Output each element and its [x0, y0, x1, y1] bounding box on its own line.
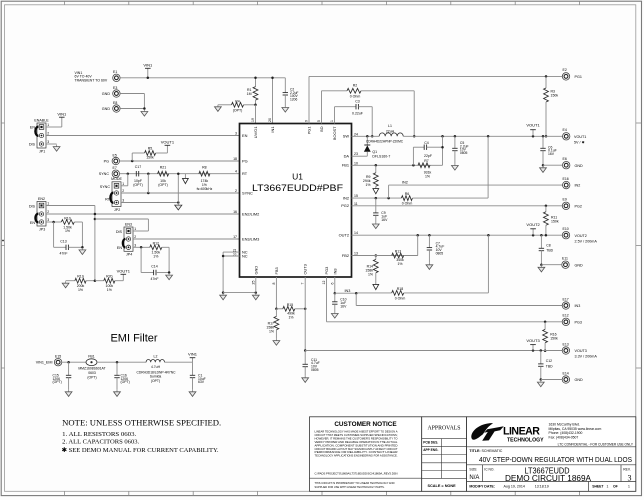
- wire pin20 stub: [272, 78, 274, 124]
- terminal E14 GND: [562, 376, 569, 383]
- svg-text:PG1: PG1: [307, 127, 312, 135]
- svg-text:25: 25: [251, 281, 255, 285]
- svg-text:0 Ohm: 0 Ohm: [350, 95, 361, 99]
- svg-text:GND: GND: [575, 164, 584, 168]
- svg-text:DIS: DIS: [29, 142, 36, 146]
- svg-text:DIS: DIS: [116, 230, 123, 234]
- wire IN2 E16 row: [389, 184, 563, 186]
- ferrite bead FB1 MMZ1608S601AT: [86, 359, 97, 366]
- svg-text:FB3: FB3: [274, 267, 279, 274]
- svg-text:Phone: (408)432-1900: Phone: (408)432-1900: [549, 431, 583, 435]
- svg-text:PG2: PG2: [341, 203, 349, 208]
- svg-text:FB1: FB1: [88, 354, 94, 358]
- svg-text:1%: 1%: [107, 288, 112, 292]
- title block customer notice: [310, 417, 422, 492]
- svg-text:40V STEP-DOWN REGULATOR WITH D: 40V STEP-DOWN REGULATOR WITH DUAL LDOS: [479, 455, 632, 464]
- resistor R18 0 Ohm: [356, 292, 392, 294]
- svg-text:CUSTOMER NOTICE: CUSTOMER NOTICE: [334, 421, 397, 428]
- ground: [428, 263, 430, 265]
- svg-text:MODE: MODE: [111, 177, 122, 181]
- wire PG2 pin11 row: [352, 205, 563, 207]
- wire IN2 pin15 row: [352, 197, 402, 199]
- svg-text:10: 10: [354, 161, 358, 165]
- svg-text:VIN1: VIN1: [57, 111, 67, 116]
- svg-text:VOUT2: VOUT2: [575, 234, 587, 238]
- svg-text:ENABLE: ENABLE: [34, 118, 49, 122]
- terminal E11 GND: [562, 261, 569, 268]
- svg-text:1: 1: [330, 120, 334, 122]
- capacitor C6 0.1uF 16V: [542, 136, 544, 148]
- wire PG3 pin12 down to E12: [326, 277, 328, 322]
- wire OUT2 pin14 row to E10: [352, 234, 563, 236]
- svg-text:Milpitas, CA 95035 www.linear: Milpitas, CA 95035 www.linear.com: [549, 427, 602, 431]
- terminal E5 PG: [112, 157, 119, 164]
- open arrow: [373, 284, 379, 289]
- svg-text:LT3667EUDD#PBF: LT3667EUDD#PBF: [252, 183, 343, 193]
- svg-text:19: 19: [251, 118, 255, 122]
- svg-text:JP4: JP4: [126, 253, 132, 257]
- capacitor C3 0.22uF: [335, 106, 357, 108]
- capacitor C8 TBD: [540, 235, 542, 248]
- svg-text:E12: E12: [563, 314, 569, 318]
- svg-text:C8: C8: [546, 243, 550, 247]
- svg-text:IN2: IN2: [343, 196, 349, 201]
- svg-text:5: 5: [317, 120, 321, 122]
- svg-text:N/A: N/A: [469, 475, 479, 481]
- resistor R6 0 Ohm: [401, 196, 412, 201]
- svg-text:EN2: EN2: [38, 197, 45, 201]
- svg-text:18: 18: [233, 157, 237, 161]
- ground: [540, 380, 542, 382]
- svg-text:0805: 0805: [311, 368, 319, 372]
- svg-text:0805: 0805: [460, 151, 468, 155]
- svg-text:13: 13: [354, 252, 358, 256]
- wire BOOST pin1 up: [334, 107, 336, 124]
- wire FB1 pin10 row: [352, 164, 443, 166]
- svg-text:2.5V / 200mA: 2.5V / 200mA: [575, 239, 598, 243]
- svg-text:(OPT): (OPT): [151, 379, 160, 383]
- svg-text:E9: E9: [563, 198, 567, 202]
- resistor R16 150k: [544, 322, 546, 330]
- wire VOUT1 rail: [403, 135, 562, 137]
- svg-text:12: 12: [322, 281, 326, 285]
- svg-text:JP2: JP2: [114, 208, 120, 212]
- net flag VOUT1: [166, 145, 168, 153]
- svg-text:IN1: IN1: [270, 127, 275, 133]
- terminal E9 PG2: [562, 202, 569, 209]
- ground: [304, 376, 306, 378]
- wire E14 row: [541, 379, 562, 381]
- wire E6 to ground: [543, 164, 563, 166]
- open arrow: [373, 189, 379, 194]
- capacitor C16 1206 OPT: [116, 362, 118, 375]
- svg-text:IN3: IN3: [332, 268, 337, 274]
- svg-text:FB2: FB2: [342, 253, 349, 258]
- svg-text:(OPT): (OPT): [233, 109, 243, 113]
- svg-text:PG: PG: [104, 159, 109, 163]
- svg-text:E10: E10: [563, 227, 569, 231]
- resistor R1 1M: [255, 78, 257, 87]
- ground: [275, 339, 277, 341]
- wire SW pin24 row: [352, 135, 380, 137]
- svg-text:SIZE: SIZE: [469, 467, 477, 471]
- capacitor C17 10pF OPT: [135, 171, 137, 176]
- svg-text:RT: RT: [105, 198, 111, 202]
- svg-text:20: 20: [268, 118, 272, 122]
- wire FB2 pin13 row: [352, 255, 418, 257]
- svg-text:47nF: 47nF: [60, 252, 68, 256]
- svg-text:JP3: JP3: [39, 227, 45, 231]
- svg-text:IC NO.: IC NO.: [484, 467, 494, 471]
- svg-text:EN: EN: [242, 133, 248, 138]
- svg-text:SUPPLIED FOR USE WITH LINEAR T: SUPPLIED FOR USE WITH LINEAR TECHNOLOGY …: [315, 485, 385, 489]
- svg-text:E4: E4: [563, 128, 567, 132]
- wire pin19 stub: [255, 105, 257, 124]
- wire E11 row: [541, 264, 561, 266]
- resistor R5 150k: [131, 153, 133, 161]
- svg-text:0 Ohm: 0 Ohm: [402, 202, 413, 206]
- svg-text:TECHNOLOGY: TECHNOLOGY: [507, 438, 544, 444]
- wire JP2 pin2 to U1 SYNC: [121, 192, 240, 194]
- svg-text:16V: 16V: [548, 152, 555, 156]
- capacitor C5 2.2uF 0805: [454, 136, 456, 148]
- capacitor C14 47nF: [140, 247, 142, 272]
- svg-text:L1: L1: [388, 124, 392, 128]
- resistor R20 100k: [95, 280, 104, 282]
- resistor R2 0 Ohm: [322, 90, 348, 92]
- wire JP4 pin2 to U1 EN3 pin17: [133, 238, 240, 240]
- wire PG1 pin9 up: [308, 76, 310, 123]
- svg-text:1%: 1%: [153, 254, 158, 258]
- ground: [255, 293, 257, 295]
- svg-text:CDRH4D22HPNP-220MC: CDRH4D22HPNP-220MC: [366, 140, 404, 144]
- wire E7 to U1 RT pin4: [120, 173, 240, 175]
- svg-text:EMI Filter: EMI Filter: [110, 333, 157, 345]
- terminal E16 IN2: [563, 181, 570, 188]
- svg-text:APP ENG.: APP ENG.: [423, 448, 438, 452]
- ground: [177, 203, 179, 205]
- wire JP1 pin3 to ground: [46, 143, 57, 145]
- svg-text:1206: 1206: [290, 98, 298, 102]
- svg-text:E11: E11: [562, 257, 568, 261]
- resistor R15 499k: [276, 308, 282, 310]
- wire OUT3 pin7 down: [304, 277, 306, 351]
- terminal E12 PG3: [562, 318, 569, 325]
- wire JP3 pin1: [46, 205, 95, 207]
- svg-text:VIN1_EMI: VIN1_EMI: [36, 361, 53, 365]
- svg-text:SYNC: SYNC: [242, 190, 253, 195]
- ground: [222, 293, 224, 295]
- svg-text:GND: GND: [253, 266, 258, 275]
- svg-text:SW: SW: [343, 134, 350, 139]
- resistor R4 OPT: [218, 104, 232, 106]
- terminal E17 IN3: [562, 302, 569, 309]
- terminal E10 VOUT2: [562, 232, 569, 239]
- svg-text:0805: 0805: [436, 252, 444, 256]
- ground: [81, 248, 83, 250]
- svg-text:E13: E13: [563, 342, 569, 346]
- jumper JP1 ENABLE: [37, 123, 46, 148]
- svg-text:VOUT3: VOUT3: [575, 349, 587, 353]
- wire FB3 pin8 down: [275, 277, 277, 309]
- svg-text:16: 16: [233, 210, 237, 214]
- svg-text:NOTE: UNLESS OTHERWISE SPECIFI: NOTE: UNLESS OTHERWISE SPECIFIED.: [62, 417, 221, 427]
- svg-text:R15: R15: [287, 303, 293, 307]
- op-amp U1 LT3667EUDD#PBF: [240, 124, 352, 278]
- svg-text:15: 15: [354, 194, 358, 198]
- svg-text:3.3V / 200mA: 3.3V / 200mA: [575, 355, 598, 359]
- terminal E15 VIN1_EMI: [54, 359, 61, 366]
- svg-text:22pF: 22pF: [424, 154, 432, 158]
- svg-text:R2: R2: [353, 84, 358, 88]
- wire JP4 pin1: [133, 230, 148, 232]
- ground: [284, 106, 286, 108]
- resistor R7 931k: [418, 163, 430, 168]
- ground: [454, 164, 456, 166]
- terminal E8 GND: [113, 105, 120, 112]
- capacitor C9 1uF 16V: [375, 198, 377, 213]
- ground: [116, 390, 118, 392]
- wire PG1 row to E2: [309, 75, 562, 77]
- svg-text:SHEET: SHEET: [592, 485, 604, 489]
- svg-text:R13: R13: [395, 249, 401, 253]
- svg-text:GND: GND: [102, 92, 111, 96]
- ground: [542, 166, 544, 168]
- svg-text:0603: 0603: [88, 371, 96, 375]
- svg-text:BOOST: BOOST: [332, 126, 337, 140]
- svg-text:E6: E6: [563, 157, 567, 161]
- capacitor C15 1206 OPT: [68, 362, 70, 375]
- svg-text:1630 McCarthy Blvd.: 1630 McCarthy Blvd.: [549, 422, 581, 426]
- svg-text:0.22uF: 0.22uF: [352, 112, 363, 116]
- wire branch to JP4 pin1: [94, 218, 97, 221]
- svg-text:EN3: EN3: [125, 222, 132, 226]
- svg-text:22uH: 22uH: [386, 130, 395, 134]
- svg-text:E5: E5: [113, 153, 117, 157]
- svg-text:E3: E3: [113, 86, 117, 90]
- svg-text:150k: 150k: [550, 336, 558, 340]
- svg-text:U1: U1: [292, 172, 303, 182]
- net flag VOUT1 at R20: [122, 274, 124, 280]
- svg-text:C12: C12: [546, 359, 552, 363]
- svg-text:R21: R21: [160, 165, 166, 169]
- wire to E17: [355, 293, 357, 305]
- svg-text:TBD: TBD: [546, 249, 553, 253]
- svg-text:4.7uH: 4.7uH: [151, 365, 161, 369]
- capacitor C4 22pF: [412, 147, 414, 165]
- ground: [68, 390, 70, 392]
- jumper JP4 EN3: [124, 227, 133, 251]
- jumper JP3 EN2: [37, 202, 46, 227]
- svg-text:Aug 19, 2014: Aug 19, 2014: [504, 485, 525, 489]
- svg-text:VOUT1: VOUT1: [574, 135, 586, 139]
- svg-text:1: 1: [628, 485, 630, 489]
- svg-text:C3: C3: [355, 100, 360, 104]
- svg-text:150k: 150k: [551, 220, 559, 224]
- svg-text:JP1: JP1: [39, 149, 45, 153]
- svg-text:7: 7: [301, 283, 305, 285]
- svg-text:R19: R19: [77, 275, 83, 279]
- svg-text:R18: R18: [397, 287, 403, 291]
- svg-text:PG3: PG3: [324, 267, 329, 275]
- inductor L2 4.7uH: [146, 360, 164, 363]
- svg-text:APPROVALS: APPROVALS: [427, 426, 460, 432]
- svg-text:150k: 150k: [551, 94, 559, 98]
- svg-text:2. ALL CAPACITORS 0603.: 2. ALL CAPACITORS 0603.: [62, 438, 139, 445]
- resistor R10 1.50k: [46, 221, 61, 223]
- resistor R21 10k OPT: [158, 171, 169, 176]
- capacitor C2 2.2uF 100V 1206: [284, 78, 286, 93]
- svg-text:CDRH3D18/LDNP-4R7NC: CDRH3D18/LDNP-4R7NC: [136, 370, 176, 374]
- capacitor C12 TBD: [540, 351, 542, 364]
- svg-text:TRANSIENT TO 60V: TRANSIENT TO 60V: [75, 79, 108, 83]
- svg-text:4: 4: [235, 170, 237, 174]
- svg-text:R10: R10: [64, 216, 70, 220]
- svg-text:VOUT1: VOUT1: [117, 269, 131, 274]
- svg-text:1. ALL RESISTORS 0603.: 1. ALL RESISTORS 0603.: [62, 431, 136, 438]
- svg-text:1M: 1M: [247, 92, 252, 96]
- resistor R14 158k: [375, 256, 377, 260]
- svg-text:0 Ohm: 0 Ohm: [395, 296, 406, 300]
- resistor R19 200k: [65, 281, 67, 283]
- svg-text:EN: EN: [30, 126, 35, 130]
- wire GND pin25 down: [255, 277, 257, 293]
- svg-text:13:18:19: 13:18:19: [535, 485, 549, 489]
- net flag VIN1 at JP1: [46, 126, 62, 128]
- svg-text:R5: R5: [148, 147, 153, 151]
- wire JP2 pin1: [121, 185, 128, 187]
- svg-text:SYNC: SYNC: [99, 172, 110, 176]
- svg-text:C:\PADS PROJECTS\1869A\LT3716E: C:\PADS PROJECTS\1869A\LT3716EUDD\SCH\18…: [315, 471, 398, 475]
- svg-text:NC: NC: [242, 254, 248, 259]
- svg-text:23: 23: [354, 152, 358, 156]
- svg-text:1%: 1%: [269, 330, 274, 334]
- svg-text:FB1: FB1: [342, 163, 349, 168]
- svg-text:14: 14: [354, 231, 358, 235]
- svg-text:(OPT): (OPT): [158, 183, 168, 187]
- svg-text:(OPT): (OPT): [121, 380, 130, 384]
- svg-text:DIS: DIS: [29, 205, 36, 209]
- svg-text:11: 11: [354, 202, 358, 206]
- ground: [192, 390, 194, 392]
- svg-text:PG3: PG3: [575, 320, 582, 324]
- svg-text:DA: DA: [344, 154, 350, 159]
- svg-text:TITLE:: TITLE:: [469, 449, 480, 453]
- svg-text:E14: E14: [563, 371, 569, 375]
- resistor R9 294k: [375, 165, 377, 173]
- svg-text:BD: BD: [319, 126, 324, 132]
- svg-text:PCB DES.: PCB DES.: [423, 440, 438, 444]
- svg-text:E17: E17: [563, 297, 569, 301]
- wire: [97, 361, 146, 363]
- svg-text:2: 2: [235, 189, 237, 193]
- resistor R13 340k: [392, 253, 404, 258]
- svg-text:IN3: IN3: [345, 289, 351, 293]
- svg-text:C17: C17: [135, 165, 141, 169]
- resistor R12 1.50k: [133, 246, 150, 248]
- diode Q1 DFLS160-7: [366, 136, 368, 145]
- wire VOUT3 row: [305, 350, 562, 352]
- title block approvals: [422, 417, 467, 492]
- svg-text:1%: 1%: [288, 315, 293, 319]
- svg-text:OF: OF: [613, 485, 618, 489]
- svg-text:VOUT2: VOUT2: [526, 222, 540, 227]
- terminal E13 VOUT3: [562, 347, 569, 354]
- wire JP1 pin2 to U1 EN: [46, 135, 240, 137]
- svg-text:R8: R8: [202, 165, 207, 169]
- resistor R3 150k: [545, 76, 547, 88]
- terminal E7 SYNC: [112, 170, 119, 177]
- svg-text:SYNC: SYNC: [100, 185, 111, 189]
- ground: [375, 222, 377, 224]
- terminal E6 GND: [563, 162, 570, 169]
- svg-text:5V / ✱: 5V / ✱: [574, 140, 586, 144]
- svg-text:EN2/LIM2: EN2/LIM2: [242, 211, 259, 216]
- jumper JP2 MODE: [112, 182, 121, 207]
- svg-text:R6: R6: [405, 192, 410, 196]
- wire BD pin5 up: [321, 91, 323, 124]
- svg-text:(OPT): (OPT): [53, 380, 62, 384]
- svg-text:E2: E2: [563, 68, 567, 72]
- svg-text:PG2: PG2: [575, 204, 582, 208]
- svg-text:SCHEMATIC: SCHEMATIC: [482, 449, 503, 453]
- svg-text:OUT2: OUT2: [339, 233, 349, 238]
- svg-text:1%: 1%: [368, 272, 373, 276]
- svg-text:GND: GND: [575, 263, 584, 267]
- svg-text:150k: 150k: [146, 156, 154, 160]
- net flag VOUT1: [532, 130, 534, 137]
- svg-text:PG1: PG1: [575, 75, 582, 79]
- svg-text:E15: E15: [55, 355, 61, 359]
- resistor R11 150k: [545, 206, 547, 212]
- ground: [143, 110, 145, 112]
- capacitor C7 4.7uF 0805: [428, 235, 430, 247]
- svg-text:63V: 63V: [198, 380, 205, 384]
- svg-text:LINEAR: LINEAR: [503, 426, 540, 438]
- svg-text:(OPT): (OPT): [87, 375, 96, 379]
- svg-text:1: 1: [607, 485, 609, 489]
- svg-text:C14: C14: [151, 265, 157, 269]
- terminal E2 PG1: [562, 73, 569, 80]
- svg-text:LTC CONFIDENTIAL - FOR CUSTOME: LTC CONFIDENTIAL - FOR CUSTOMER USE ONLY: [558, 443, 634, 447]
- svg-text:MODIFY DATE:: MODIFY DATE:: [469, 485, 495, 489]
- wire DA pin23: [352, 155, 368, 157]
- terminal E3 GND: [113, 90, 120, 97]
- svg-text:VOUT3: VOUT3: [526, 338, 540, 343]
- Linear Technology logo: [471, 423, 493, 440]
- capacitor C1 10uF 63V: [192, 362, 194, 375]
- svg-text:fs=600kHz: fs=600kHz: [197, 187, 213, 191]
- wire E3-E8 to ground: [120, 93, 144, 95]
- capacitor C10 1uF 16V: [334, 293, 336, 302]
- svg-text:6: 6: [330, 283, 334, 285]
- svg-text:VOUT1: VOUT1: [161, 140, 175, 145]
- svg-text:1%: 1%: [365, 183, 370, 187]
- svg-text:VIN1: VIN1: [188, 352, 198, 357]
- net flag VOUT3: [532, 345, 534, 351]
- svg-text:3: 3: [235, 132, 237, 136]
- wire E5 to U1 PG pin18: [120, 160, 240, 162]
- svg-text:REV.: REV.: [623, 468, 631, 472]
- wire JP2 pin3 to ground: [121, 202, 178, 204]
- resistor R8 174k fs=600kHz: [199, 171, 210, 176]
- svg-text:C4: C4: [424, 141, 429, 145]
- capacitor C11 4.7uF 0805: [304, 351, 306, 365]
- svg-text:UV/O1: UV/O1: [253, 127, 258, 139]
- svg-text:TECHNOLOGY APPLICATIONS ENGINE: TECHNOLOGY APPLICATIONS ENGINEERING FOR …: [315, 454, 398, 458]
- ground: [540, 265, 542, 267]
- svg-text:GND: GND: [575, 378, 584, 382]
